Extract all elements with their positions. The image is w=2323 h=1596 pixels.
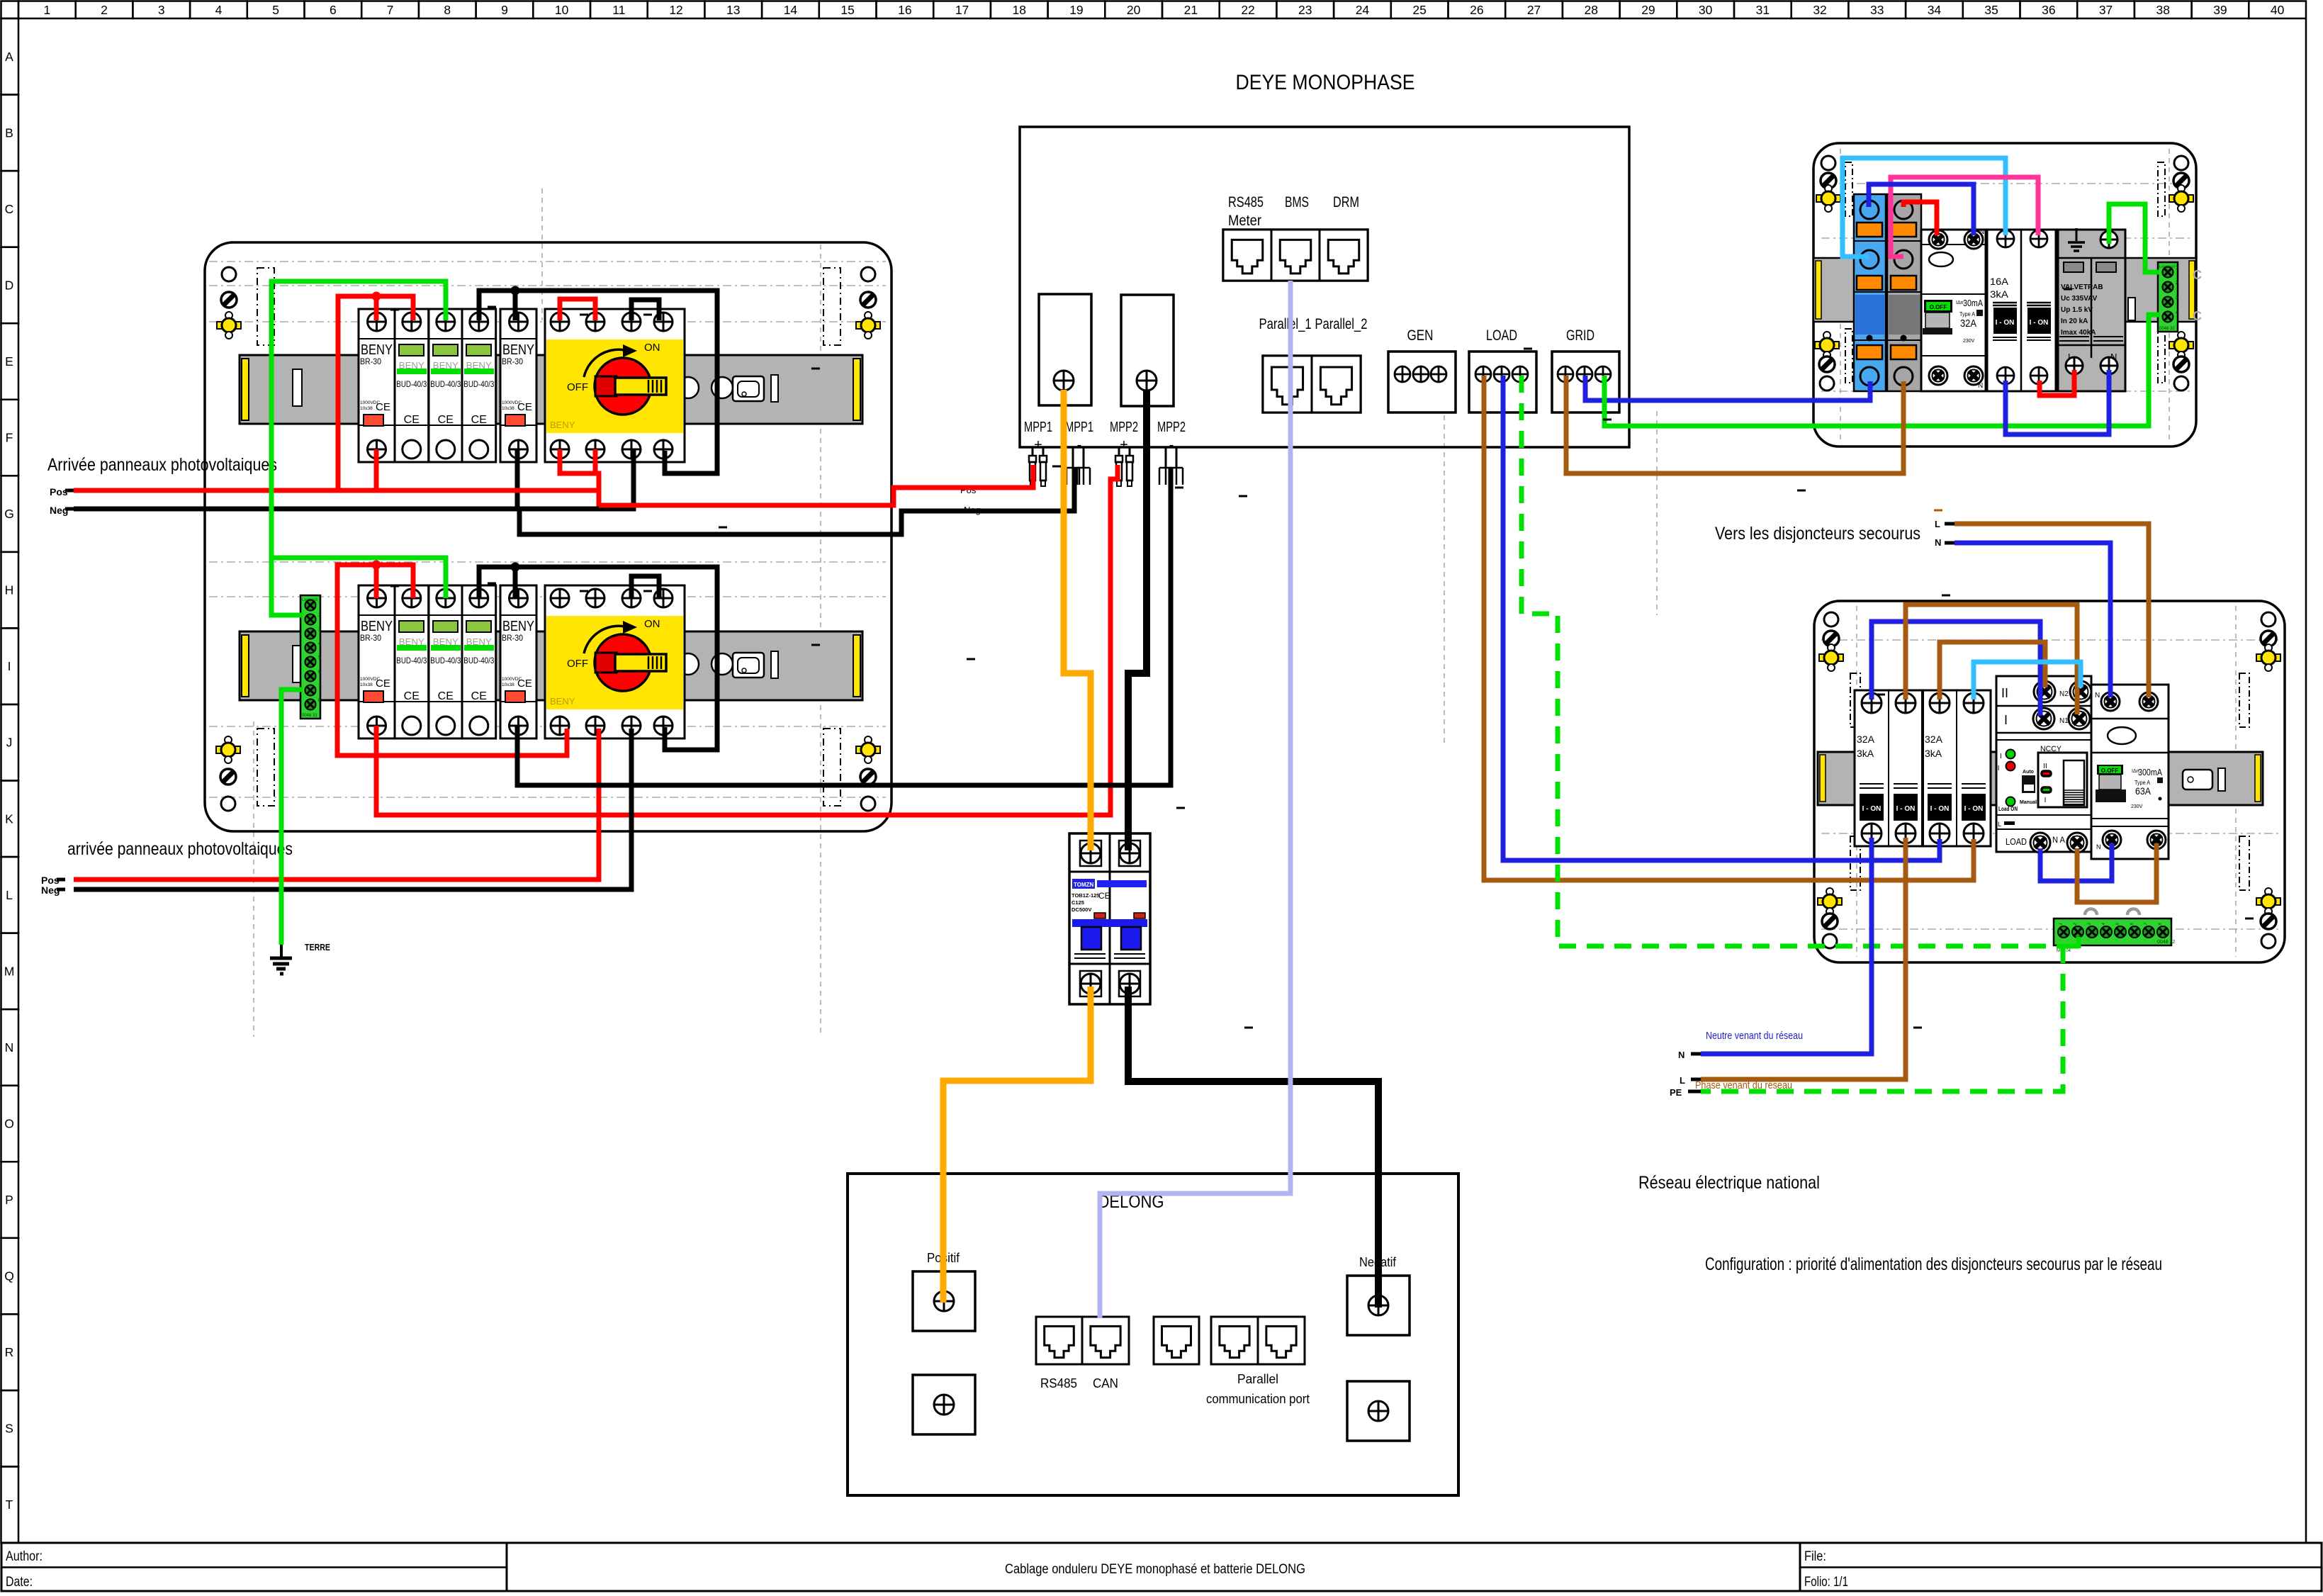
svg-text:Manual: Manual [2020,800,2037,805]
svg-text:BUD-40/3: BUD-40/3 [463,656,494,665]
svg-text:N: N [1935,537,1941,548]
svg-text:1: 1 [318,599,321,604]
svg-text:I: I [2044,797,2047,804]
svg-text:3kA: 3kA [1990,288,2009,300]
svg-text:G: G [4,507,14,521]
svg-text:File:: File: [1804,1549,1826,1564]
svg-text:L: L [6,888,13,902]
svg-text:Load ON: Load ON [1998,805,2018,812]
svg-text:28: 28 [1585,3,1598,17]
svg-text:C: C [2193,268,2202,282]
svg-text:Q: Q [4,1269,14,1283]
svg-text:O: O [4,1116,14,1130]
svg-text:Vers les disjoncteurs secourus: Vers les disjoncteurs secourus [1715,524,1920,544]
svg-text:Type A: Type A [1959,311,1976,317]
svg-text:20: 20 [1127,3,1141,17]
svg-text:OFF: OFF [567,658,588,670]
svg-text:F: F [6,431,13,445]
svg-text:CE: CE [517,401,532,413]
svg-text:RS485: RS485 [1040,1376,1077,1390]
svg-text:36: 36 [2042,3,2055,17]
svg-text:Arrivée panneaux photovoltaiqu: Arrivée panneaux photovoltaiques [47,455,277,475]
svg-text:Uc 335VAV: Uc 335VAV [2061,295,2098,303]
svg-text:communication port: communication port [1206,1392,1310,1406]
svg-text:MPP1: MPP1 [1024,420,1052,435]
svg-text:30: 30 [1699,3,1713,17]
svg-text:21: 21 [1184,3,1198,17]
svg-text:32: 32 [1813,3,1826,17]
svg-text:BENY: BENY [502,619,534,634]
svg-text:L: L [1935,519,1940,529]
svg-text:I: I [2000,753,2002,760]
svg-text:26: 26 [1470,3,1483,17]
svg-text:BENY: BENY [550,696,575,707]
svg-text:OFF: OFF [567,381,588,393]
svg-text:CE: CE [404,414,420,426]
svg-text:23: 23 [1298,3,1312,17]
svg-text:Up 1.5 kV: Up 1.5 kV [2061,306,2093,314]
svg-text:33: 33 [1870,3,1884,17]
svg-text:40: 40 [2271,3,2285,17]
svg-text:CE: CE [471,414,487,426]
svg-text:Date:: Date: [6,1575,33,1590]
svg-text:RS485: RS485 [1228,194,1264,210]
svg-text:BUD-40/3: BUD-40/3 [430,379,461,389]
svg-text:I: I [2004,713,2008,727]
svg-text:37: 37 [2099,3,2113,17]
svg-text:A: A [5,50,13,64]
svg-text:Imax 40kA: Imax 40kA [2061,329,2096,337]
svg-text:10x38: 10x38 [360,406,373,411]
svg-text:N: N [2095,692,2100,699]
svg-text:32A: 32A [1960,317,1976,330]
svg-text:BR-30: BR-30 [360,633,381,643]
svg-text:2: 2 [101,3,108,17]
svg-text:Configuration : priorité d'ali: Configuration : priorité d'alimentation … [1705,1254,2162,1274]
svg-text:BUD-40/3: BUD-40/3 [430,656,461,665]
svg-text:O.OFF: O.OFF [1930,304,1947,310]
svg-text:LOAD: LOAD [2006,836,2027,847]
svg-text:4: 4 [318,641,321,646]
svg-text:1: 1 [2176,266,2178,271]
svg-text:I - ON: I - ON [1896,805,1916,813]
svg-text:14: 14 [784,3,798,17]
svg-text:BENY: BENY [361,342,393,358]
svg-text:ON: ON [644,342,660,354]
svg-text:3: 3 [2176,296,2178,300]
svg-text:Meter: Meter [1228,213,1261,229]
svg-text:I - ON: I - ON [1996,319,2015,327]
svg-text:I - ON: I - ON [1862,805,1882,813]
svg-text:N: N [2096,843,2101,850]
svg-text:39: 39 [2213,3,2227,17]
svg-text:ON: ON [644,618,660,630]
svg-text:3kA: 3kA [1925,748,1942,759]
svg-text:32A: 32A [1857,734,1875,745]
svg-text:6: 6 [318,670,321,675]
svg-text:I: I [8,659,11,673]
svg-text:9: 9 [501,3,508,17]
svg-text:17: 17 [955,3,969,17]
svg-text:34: 34 [1928,3,1942,17]
svg-text:10x38: 10x38 [502,406,514,411]
svg-text:BENY: BENY [550,420,575,430]
svg-text:27: 27 [1527,3,1541,17]
svg-text:L: L [1998,821,2001,828]
svg-text:Neutre venant du réseau: Neutre venant du réseau [1706,1030,1803,1042]
svg-text:16A: 16A [1990,276,2009,287]
svg-text:C125: C125 [1071,899,1084,906]
svg-text:R: R [5,1345,14,1359]
svg-text:CAN: CAN [1093,1376,1118,1390]
svg-text:30mA: 30mA [1963,298,1984,308]
svg-text:II: II [2043,763,2047,770]
svg-text:32A: 32A [1925,734,1943,745]
svg-text:N: N [1678,1050,1684,1060]
svg-text:N: N [1979,228,1984,236]
svg-text:GRID: GRID [1566,327,1594,344]
svg-text:DEYE MONOPHASE: DEYE MONOPHASE [1236,71,1415,94]
svg-text:P: P [5,1193,13,1207]
svg-text:10: 10 [555,3,569,17]
svg-text:I - ON: I - ON [2030,319,2049,327]
svg-text:D: D [5,278,14,292]
svg-text:+: + [1120,437,1128,453]
svg-text:C: C [2193,309,2202,323]
svg-text:In 20 kA: In 20 kA [2061,317,2088,325]
svg-text:Auto: Auto [2023,770,2034,775]
svg-text:CE: CE [438,690,454,702]
svg-text:CE: CE [376,678,390,690]
svg-text:BR-30: BR-30 [502,356,523,366]
svg-text:BR-30: BR-30 [360,356,381,366]
svg-text:BUD-40/3: BUD-40/3 [396,656,427,665]
svg-text:BENY: BENY [502,342,534,358]
svg-text:CE: CE [517,678,532,690]
svg-text:1: 1 [43,3,50,17]
svg-text:-: - [1169,437,1174,453]
svg-text:+: + [1034,437,1042,453]
svg-text:C: C [5,202,14,216]
svg-text:B: B [5,125,13,140]
svg-text:12: 12 [669,3,682,17]
svg-text:10x38: 10x38 [360,682,373,687]
svg-text:25: 25 [1412,3,1426,17]
svg-text:11: 11 [612,3,625,17]
svg-text:CE: CE [404,690,420,702]
svg-text:15: 15 [840,3,854,17]
svg-text:2: 2 [2176,281,2178,286]
svg-text:BMS: BMS [1285,194,1309,210]
svg-text:I - ON: I - ON [1964,805,1984,813]
svg-text:22: 22 [1241,3,1254,17]
svg-text:29: 29 [1641,3,1655,17]
svg-text:16: 16 [898,3,911,17]
svg-text:8: 8 [444,3,451,17]
svg-text:Folio: 1/1: Folio: 1/1 [1804,1575,1848,1590]
svg-text:BR-30: BR-30 [502,633,523,643]
svg-text:MPP1: MPP1 [1065,420,1093,435]
svg-text:3kA: 3kA [1857,748,1874,759]
svg-text:Parallel: Parallel [1237,1372,1278,1386]
svg-text:2: 2 [318,613,321,618]
svg-text:N: N [5,1040,14,1055]
svg-text:DC500V: DC500V [1071,906,1091,913]
svg-text:CE: CE [471,690,487,702]
svg-text:230V: 230V [1963,339,1975,344]
svg-text:M: M [4,964,15,978]
svg-text:H: H [5,583,14,597]
svg-text:arrivée panneaux photovoltaiqu: arrivée panneaux photovoltaiques [67,839,293,859]
svg-text:13: 13 [726,3,740,17]
svg-text:Parallel_1 Parallel_2: Parallel_1 Parallel_2 [1259,316,1368,332]
svg-text:CE: CE [438,414,454,426]
svg-text:31: 31 [1756,3,1770,17]
svg-text:CE: CE [1098,891,1110,901]
svg-text:MPP2: MPP2 [1110,420,1138,435]
svg-text:Author:: Author: [6,1549,43,1564]
svg-text:TOB1Z-125: TOB1Z-125 [1071,892,1099,899]
svg-text:300mA: 300mA [2138,768,2163,777]
svg-text:7: 7 [387,3,394,17]
svg-text:BENY: BENY [361,619,393,634]
svg-text:N A: N A [2052,835,2065,845]
svg-text:L: L [1680,1075,1685,1086]
svg-text:I - ON: I - ON [1930,805,1950,813]
svg-text:8: 8 [318,698,321,703]
svg-text:24: 24 [1356,3,1370,17]
svg-text:4: 4 [2176,310,2178,315]
svg-text:6: 6 [330,3,337,17]
svg-text:BUD-40/3: BUD-40/3 [396,379,427,389]
svg-text:MPP2: MPP2 [1157,420,1186,435]
svg-text:PE: PE [1670,1087,1682,1098]
svg-text:19: 19 [1069,3,1083,17]
svg-text:-: - [1077,437,1082,453]
svg-text:J: J [6,736,13,750]
svg-text:Cablage onduleru DEYE monophas: Cablage onduleru DEYE monophasé et batte… [1005,1562,1305,1577]
svg-text:II: II [1996,765,2000,772]
svg-text:II: II [2001,686,2008,700]
svg-text:35: 35 [1984,3,1998,17]
svg-text:5: 5 [272,3,279,17]
svg-text:TOMZN: TOMZN [1074,882,1094,888]
svg-text:LOAD: LOAD [1486,327,1517,344]
svg-text:TERRE: TERRE [305,943,330,952]
svg-text:18: 18 [1013,3,1026,17]
svg-text:230V: 230V [2131,804,2143,809]
svg-text:63A: 63A [2135,785,2152,797]
svg-text:7: 7 [318,684,321,689]
svg-text:10x38: 10x38 [502,682,514,687]
svg-text:4: 4 [215,3,223,17]
svg-text:3: 3 [318,627,321,632]
svg-text:Réseau électrique national: Réseau électrique national [1638,1173,1820,1193]
svg-text:38: 38 [2156,3,2170,17]
svg-text:0048 32: 0048 32 [2159,327,2175,331]
svg-text:N: N [1978,382,1983,390]
svg-text:DRM: DRM [1333,194,1359,210]
svg-text:5: 5 [318,656,321,661]
svg-text:CE: CE [376,401,390,413]
svg-text:T: T [6,1497,13,1512]
svg-text:0048 32: 0048 32 [2157,940,2175,945]
svg-text:S: S [5,1422,13,1436]
svg-text:K: K [5,811,13,826]
svg-text:GEN: GEN [1407,327,1434,344]
svg-text:BUD-40/3: BUD-40/3 [463,379,494,389]
svg-text:O.OFF: O.OFF [2101,768,2119,774]
svg-text:0048 32: 0048 32 [302,714,317,718]
svg-text:3: 3 [158,3,165,17]
svg-text:E: E [5,354,13,369]
